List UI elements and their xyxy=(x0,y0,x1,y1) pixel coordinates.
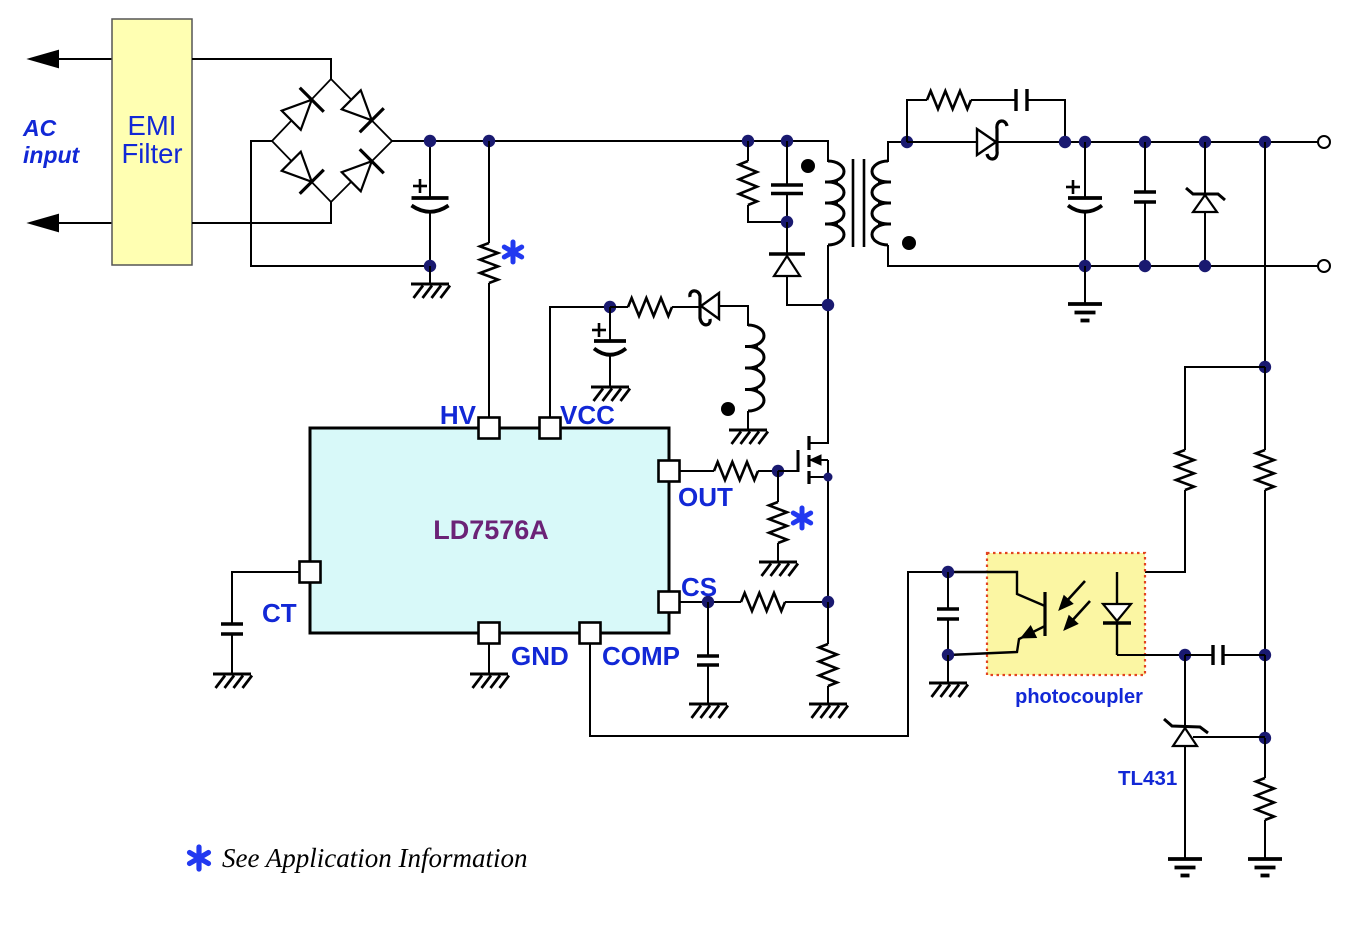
wire EMI bottom to bridge xyxy=(192,202,331,223)
wire feedback drop xyxy=(1264,142,1266,367)
resistor R-gate xyxy=(714,462,758,480)
node drain snubber junction xyxy=(822,299,834,311)
ground aux winding xyxy=(729,429,767,432)
ground output (earth) xyxy=(1068,302,1102,306)
photocoupler box xyxy=(987,553,1145,675)
wire snubber resistor top xyxy=(747,141,749,161)
wire secondary bottom rail xyxy=(888,245,1320,266)
svg-text:TL431: TL431 xyxy=(1118,767,1177,790)
ground TL431 (earth) xyxy=(1168,857,1202,861)
MOSFET Q1 source lead xyxy=(809,476,828,478)
phototransistor collector wire xyxy=(948,572,1045,606)
AC input arrow bottom xyxy=(34,222,112,224)
ground VCC cap xyxy=(591,386,629,389)
MOSFET Q1 body arrow xyxy=(810,459,828,461)
wire bridge negative to bottom rail xyxy=(251,141,430,266)
photocoupler LED xyxy=(1116,572,1118,604)
transformer primary winding xyxy=(828,161,844,245)
wire output diode anode lead xyxy=(907,141,977,143)
resistor R-vcc xyxy=(628,298,672,316)
bridge diode D1 (left-top edge) xyxy=(282,100,312,130)
wire right divider mid xyxy=(1264,490,1266,655)
resistor R-bias (left) xyxy=(1176,450,1194,490)
transformer secondary winding xyxy=(872,161,888,245)
wire gate node to MOSFET xyxy=(778,470,798,472)
wire LED cathode out xyxy=(1117,654,1185,656)
bridge diode D3 (left-bottom edge) xyxy=(282,152,312,182)
svg-text:GND: GND xyxy=(511,641,569,671)
MOSFET Q1 channel xyxy=(807,436,810,450)
light arrow 2 xyxy=(1070,601,1090,623)
pin COMP xyxy=(580,623,601,644)
resistor R-snubber xyxy=(739,161,757,205)
svg-text:CT: CT xyxy=(262,598,297,628)
node source xyxy=(824,473,833,482)
capacitor C-comp xyxy=(947,572,949,609)
resistor R-HV startup xyxy=(480,243,498,283)
diode D-vcc (cathode left) xyxy=(690,291,710,325)
wire TL431 cathode xyxy=(1184,655,1186,725)
ground IC xyxy=(470,673,508,676)
wire bulk cap ground stub xyxy=(429,266,431,284)
node ceramic cap bottom xyxy=(1139,260,1151,272)
node comp cap top xyxy=(942,566,954,578)
wire zener bottom xyxy=(1204,212,1206,266)
wire GND pin xyxy=(488,644,490,674)
ground bulk cap xyxy=(411,283,449,286)
node comp cap bottom xyxy=(942,649,954,661)
resistor R-gate-pulldown xyxy=(777,471,779,502)
svg-text:See Application Information: See Application Information xyxy=(222,843,527,873)
AC input arrow top xyxy=(34,58,112,60)
svg-text:AC: AC xyxy=(22,115,57,141)
wire snubber resistor bottom xyxy=(748,205,787,222)
diode D-output (schottky) xyxy=(977,129,996,155)
node fb divider mid xyxy=(1259,732,1271,744)
ground fb divider (earth) xyxy=(1248,857,1282,861)
wire output snubber right xyxy=(1027,100,1065,142)
asterisk gate resistor xyxy=(800,508,805,528)
asterisk HV resistor xyxy=(511,242,516,262)
wire main HV bus xyxy=(392,140,828,142)
wire output diode cathode lead xyxy=(997,141,1320,143)
TL431 shunt regulator xyxy=(1164,719,1208,733)
asterisk footnote xyxy=(196,847,201,869)
transformer core xyxy=(852,159,855,247)
ground CS cap xyxy=(689,703,727,706)
wire VCC pin up xyxy=(550,307,610,418)
svg-text:EMI: EMI xyxy=(128,110,177,141)
svg-text:Filter: Filter xyxy=(121,138,182,169)
node gate xyxy=(772,465,784,477)
wire right divider upper xyxy=(1264,367,1266,450)
wire right divider lower xyxy=(1264,655,1266,738)
wire TL431 anode xyxy=(1184,746,1186,859)
wire bias resistor to LED xyxy=(1117,490,1185,572)
wire primary bottom to MOSFET drain xyxy=(827,245,829,444)
node VCC cap xyxy=(604,301,616,313)
terminal output positive xyxy=(1318,136,1330,148)
wire output cap top xyxy=(1084,142,1086,198)
node zener top xyxy=(1199,136,1211,148)
node sense junction xyxy=(822,596,834,608)
wire gate resistor to node xyxy=(758,470,778,472)
pin OUT xyxy=(659,461,680,482)
wire output cap bottom xyxy=(1084,212,1086,266)
node output cap bottom xyxy=(1079,260,1091,272)
wire snubber diode to drain node xyxy=(787,276,828,305)
wire VCC diode to aux winding xyxy=(719,306,748,326)
node output diode anode xyxy=(901,136,913,148)
wire HV branch lower xyxy=(488,283,490,418)
node snubber junction xyxy=(781,216,793,228)
bulk capacitor C1 wires xyxy=(429,141,431,198)
wire CS resistor right xyxy=(785,601,828,603)
aux winding xyxy=(748,325,764,411)
primary phase dot xyxy=(801,159,815,173)
node output cap top xyxy=(1079,136,1091,148)
wire COMP feedback run xyxy=(590,572,948,736)
capacitor C-out ceramic xyxy=(1144,142,1146,192)
pin CS xyxy=(659,592,680,613)
pin GND xyxy=(479,623,500,644)
phototransistor emitter arrow xyxy=(1021,626,1036,638)
node feedback tap xyxy=(1259,136,1271,148)
capacitor C-fb xyxy=(1185,654,1213,656)
svg-text:LD7576A: LD7576A xyxy=(433,515,549,545)
wire VCC resistor left xyxy=(610,306,628,308)
pin VCC xyxy=(540,418,561,439)
phototransistor emitter wire xyxy=(948,626,1045,655)
pin HV xyxy=(479,418,500,439)
ground sense resistor xyxy=(809,703,847,706)
capacitor C-vcc xyxy=(594,339,626,343)
ground CT cap xyxy=(213,673,251,676)
wire secondary top xyxy=(888,142,907,162)
phototransistor body xyxy=(1043,592,1046,636)
svg-text:COMP: COMP xyxy=(602,641,680,671)
capacitor C-out-snubber xyxy=(1014,89,1017,111)
svg-text:OUT: OUT xyxy=(678,482,733,512)
resistor R-cs xyxy=(741,593,785,611)
node snubber resistor top xyxy=(742,135,754,147)
node bulk cap bottom xyxy=(424,260,436,272)
node CS xyxy=(702,596,714,608)
bulk capacitor C1 xyxy=(412,196,449,200)
wire output snubber mid xyxy=(971,99,1016,101)
ground gate pulldown xyxy=(759,561,797,564)
node bulk cap top xyxy=(424,135,436,147)
resistor R-sense xyxy=(827,602,829,644)
pin CT xyxy=(300,562,321,583)
wire output snubber left xyxy=(907,100,927,142)
aux phase dot xyxy=(721,402,735,416)
wire output ground stub xyxy=(1084,266,1086,304)
bridge diode D2 (top-right edge) xyxy=(342,90,372,120)
node fb cap right xyxy=(1259,649,1271,661)
resistor R-out-snubber xyxy=(927,91,971,109)
wire comp cap ground stub xyxy=(947,655,949,683)
EMI filter block xyxy=(112,19,192,265)
svg-text:input: input xyxy=(23,142,81,168)
wire snubber diode top xyxy=(786,222,788,254)
node divider split xyxy=(1259,361,1271,373)
wire primary top stub xyxy=(827,140,829,162)
bridge rectifier frame xyxy=(272,79,392,202)
wire HV branch upper xyxy=(488,141,490,243)
wire EMI top to bridge xyxy=(192,59,331,79)
MOSFET Q1 gate bar xyxy=(797,450,800,472)
node ceramic cap top xyxy=(1139,136,1151,148)
MOSFET Q1 drain lead xyxy=(809,442,828,444)
node HV branch xyxy=(483,135,495,147)
node LED cathode xyxy=(1179,649,1191,661)
IC U1 LD7576A body xyxy=(310,428,669,633)
svg-text:HV: HV xyxy=(440,400,477,430)
diode D-snubber (cathode up) xyxy=(769,252,805,255)
capacitor C-ct xyxy=(221,622,243,625)
resistor R-fb lower xyxy=(1264,738,1266,778)
capacitor C-snubber xyxy=(771,183,803,186)
capacitor C-cs xyxy=(707,602,709,656)
secondary phase dot xyxy=(902,236,916,250)
zener D-out clamp xyxy=(1204,142,1206,194)
wire CT pin xyxy=(232,572,300,624)
resistor R-fb upper xyxy=(1256,450,1274,490)
terminal output negative xyxy=(1318,260,1330,272)
wire aux winding ground stub xyxy=(747,411,749,430)
bridge diode D4 (bottom-right edge) xyxy=(342,161,372,191)
capacitor C-out electrolytic xyxy=(1068,196,1102,200)
svg-text:VCC: VCC xyxy=(560,400,615,430)
wire VCC resistor right xyxy=(672,306,700,308)
wire snubber cap top xyxy=(786,141,788,185)
wire to left divider resistor xyxy=(1185,367,1265,450)
node out-snubber right xyxy=(1059,136,1071,148)
wire snubber cap bottom xyxy=(786,194,788,223)
wire TL431 ref xyxy=(1193,736,1265,738)
wire CS pin xyxy=(680,601,741,603)
light arrow 1 xyxy=(1065,581,1085,603)
node zener bottom xyxy=(1199,260,1211,272)
node snubber cap top xyxy=(781,135,793,147)
ground comp cap xyxy=(929,682,967,685)
svg-text:photocoupler: photocoupler xyxy=(1015,686,1143,708)
wire OUT pin xyxy=(680,470,714,472)
capacitor C-vcc wires xyxy=(609,307,611,341)
